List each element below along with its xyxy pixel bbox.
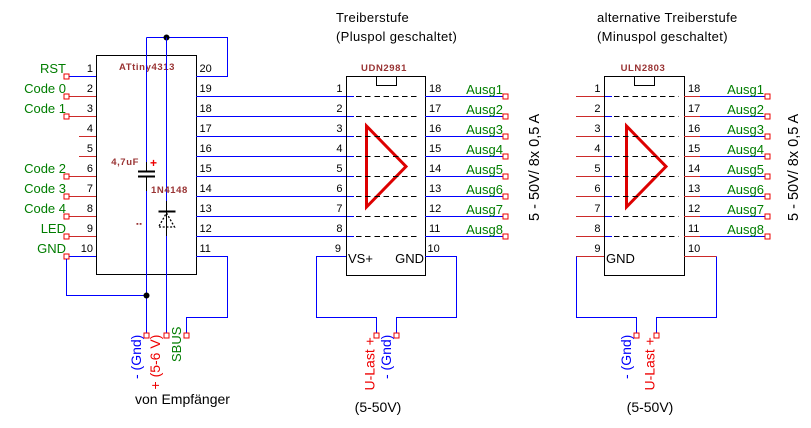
label von Empfaenger (135, 391, 230, 407)
pin 13 of U1 (200, 203, 212, 215)
wire U3 Ausg4 (700, 156, 765, 158)
node Code 0 label (24, 81, 66, 96)
node Ausg6 terminal (U3) (765, 194, 770, 199)
pin 15 of U3 (684, 143, 700, 157)
svg-text:3: 3 (594, 123, 600, 135)
pin 4 of U3 (576, 143, 612, 157)
svg-text:Ausg1: Ausg1 (727, 82, 764, 97)
svg-text:18: 18 (429, 83, 441, 95)
svg-text:2: 2 (594, 103, 600, 115)
U3 internal channel 2 dashed (614, 116, 679, 118)
pin 10 of U2 (428, 243, 440, 255)
U3 internal channel 7 dashed (614, 216, 679, 218)
svg-text:4: 4 (594, 143, 600, 155)
wire bus U1 pin 14 to U2 pin 6 (196, 196, 346, 198)
wire U3 pin9 to -(Gnd) (577, 257, 637, 334)
label GND (U2) (395, 251, 424, 266)
svg-text:LED: LED (41, 221, 66, 236)
wire U3 Ausg8 (700, 236, 765, 238)
U2 internal channel 6 dashed (356, 196, 420, 198)
pin 18 of U2 (429, 83, 441, 95)
pin 8 of U2 (336, 223, 354, 237)
pin 6 of U3 (576, 183, 612, 197)
svg-text:- (Gnd): - (Gnd) (618, 335, 634, 379)
pin 1 of U3 (576, 83, 612, 97)
svg-text:10: 10 (428, 243, 440, 255)
wire U2 pin10 to -(Gnd) (397, 257, 457, 334)
label C1 plus polarity (150, 156, 157, 170)
node Code 1 label (24, 101, 66, 116)
label dots (137, 223, 142, 225)
svg-text:Ausg2: Ausg2 (727, 102, 764, 117)
svg-text:(5-50V): (5-50V) (355, 399, 402, 415)
node Code 4 label (24, 201, 66, 216)
label SBUS (169, 326, 184, 362)
svg-text:14: 14 (200, 183, 212, 195)
label 1N4148 (151, 185, 188, 196)
wire diode branch lower (blue) (166, 236, 168, 333)
svg-text:14: 14 (429, 163, 441, 175)
wire U3 Ausg3 (700, 136, 765, 138)
svg-text:Ausg5: Ausg5 (466, 162, 503, 177)
op-amp U2 driver triangle (367, 126, 407, 207)
pin 11 of U1 (200, 243, 211, 255)
node Ausg3 terminal (U3) (765, 134, 770, 139)
label U-Last + (U2) (362, 337, 378, 390)
label Ausg8 (466, 222, 503, 237)
svg-text:8: 8 (87, 203, 93, 215)
svg-text:(5-50V): (5-50V) (627, 399, 674, 415)
svg-text:9: 9 (335, 243, 341, 255)
label Ausg2 (466, 102, 503, 117)
wire U2 pin 14 to Ausg5 (425, 176, 503, 178)
svg-text:11: 11 (200, 243, 211, 255)
pin 12 of U1 (200, 223, 212, 235)
pin 11 of U2 (429, 223, 440, 235)
label Ausg5 (U3) (727, 162, 764, 177)
svg-text:alternative Treiberstufe: alternative Treiberstufe (597, 10, 738, 25)
svg-text:13: 13 (688, 183, 700, 195)
pin 3 of U3 (576, 123, 612, 137)
label + (5-6 V) (147, 335, 163, 390)
wire U3 Ausg5 (700, 176, 765, 178)
pin 6 of U2 (336, 183, 354, 197)
svg-text:13: 13 (200, 203, 212, 215)
svg-text:Code 1: Code 1 (24, 101, 66, 116)
U2 internal channel 5 dashed (356, 176, 420, 178)
svg-text:6: 6 (336, 183, 342, 195)
title (Pluspol geschaltet) (336, 29, 457, 44)
svg-text:13: 13 (429, 183, 441, 195)
svg-text:Ausg8: Ausg8 (727, 222, 764, 237)
node Ausg4 terminal (503, 154, 508, 159)
node RST label (40, 61, 66, 76)
svg-text:16: 16 (429, 123, 441, 135)
wire U2 pin 13 to Ausg6 (425, 196, 503, 198)
pin 3 of U2 (336, 123, 354, 137)
node Ausg4 terminal (U3) (765, 154, 770, 159)
svg-text:4: 4 (87, 123, 93, 135)
node Ausg8 terminal (U3) (765, 234, 770, 239)
wire bus U1 pin 13 to U2 pin 7 (196, 216, 346, 218)
pin 3 of U1 (64, 103, 96, 119)
U3 notch (635, 77, 655, 86)
wire U3 Ausg1 (700, 96, 765, 98)
label VS+ (348, 251, 373, 266)
wire pin11 SBUS route (187, 257, 228, 334)
pin 2 of U2 (336, 103, 354, 117)
svg-text:17: 17 (200, 123, 212, 135)
svg-text:17: 17 (429, 103, 441, 115)
pin 13 of U2 (429, 183, 441, 195)
svg-text:7: 7 (336, 203, 342, 215)
wire capacitor branch lower (blue) (146, 191, 148, 333)
pin 15 of U1 (200, 163, 212, 175)
node + (5-6 V) terminal (164, 333, 169, 338)
svg-text:von Empfänger: von Empfänger (135, 391, 230, 407)
pin 14 of U1 (200, 183, 212, 195)
pin 1 of U2 (336, 83, 354, 97)
svg-text:2: 2 (87, 83, 93, 95)
label U-Last + (U3) (642, 337, 658, 390)
wire bus U1 pin 12 to U2 pin 8 (196, 236, 346, 238)
pin 10 of U1 (64, 243, 96, 259)
node U-Last + terminal (U3) (654, 333, 659, 338)
svg-text:5: 5 (87, 143, 93, 155)
svg-text:2: 2 (336, 103, 342, 115)
label Ausg3 (466, 122, 503, 137)
svg-text:U-Last +: U-Last + (642, 337, 658, 390)
U3 internal channel 4 dashed (614, 156, 679, 158)
U3 internal channel 8 dashed (614, 236, 679, 238)
pin 7 of U3 (576, 203, 612, 217)
svg-text:4: 4 (336, 143, 342, 155)
label - (Gnd) (128, 335, 144, 379)
U2 internal channel 4 dashed (356, 156, 420, 158)
pin 5 of U1 (79, 143, 96, 157)
U2 internal channel 3 dashed (356, 136, 420, 138)
pin 14 of U2 (429, 163, 441, 175)
U2 notch (377, 77, 397, 86)
svg-text:7: 7 (87, 183, 93, 195)
U2 internal channel 2 dashed (356, 116, 420, 118)
svg-text:Ausg8: Ausg8 (466, 222, 503, 237)
svg-text:5: 5 (594, 163, 600, 175)
pin 10 of U3 (684, 243, 717, 257)
wire pin20 to top rail (196, 37, 228, 77)
pin 9 of U2 (335, 243, 341, 255)
title (Minuspol geschaltet) (597, 29, 728, 44)
label ATtiny4313 (119, 62, 175, 73)
pin 6 of U1 (64, 163, 96, 179)
svg-text:Ausg4: Ausg4 (466, 142, 503, 157)
svg-text:Ausg7: Ausg7 (466, 202, 503, 217)
label Ausg1 (U3) (727, 82, 764, 97)
svg-text:5: 5 (336, 163, 342, 175)
U3 internal channel 1 dashed (614, 96, 679, 98)
pin 7 of U1 (64, 183, 96, 199)
svg-text:16: 16 (200, 143, 212, 155)
label UDN2981 (361, 63, 407, 74)
label Ausg7 (466, 202, 503, 217)
title alternative Treiberstufe (597, 10, 738, 25)
pin 17 of U2 (429, 103, 441, 115)
op-amp U3 driver triangle (627, 126, 667, 207)
svg-text:8: 8 (336, 223, 342, 235)
svg-text:5 - 50V/ 8x 0,5 A: 5 - 50V/ 8x 0,5 A (527, 113, 543, 221)
pin 7 of U2 (336, 203, 354, 217)
node Ausg1 terminal (503, 94, 508, 99)
pin 8 of U3 (576, 223, 612, 237)
wire U2 pin9 to U-Last+ (317, 257, 377, 334)
svg-text:10: 10 (81, 243, 93, 255)
svg-text:5 - 50V/ 8x 0,5 A: 5 - 50V/ 8x 0,5 A (786, 113, 802, 221)
label 4,7uF (111, 157, 139, 168)
node Ausg5 terminal (U3) (765, 174, 770, 179)
capacitor C1 4,7uF (138, 162, 155, 191)
svg-text:ULN2803: ULN2803 (621, 63, 666, 74)
svg-text:1: 1 (336, 83, 342, 95)
wire GND pin10 down (67, 259, 147, 296)
label 5 - 50V/ 8x 0,5 A middle (527, 113, 543, 221)
svg-text:Code 2: Code 2 (24, 161, 66, 176)
svg-text:U-Last +: U-Last + (362, 337, 378, 390)
svg-text:GND: GND (37, 241, 66, 256)
U2 internal channel 8 dashed (356, 236, 420, 238)
svg-text:18: 18 (200, 103, 212, 115)
pin 9 of U3 (576, 243, 604, 257)
node Ausg2 terminal (503, 114, 508, 119)
pin 18 of U3 (684, 83, 700, 97)
pin 2 of U1 (64, 83, 96, 99)
wire bus U1 pin 18 to U2 pin 2 (196, 116, 346, 118)
node SBUS terminal (184, 333, 189, 338)
label GND (U3) (606, 251, 635, 266)
svg-text:Code 4: Code 4 (24, 201, 66, 216)
svg-text:Code 3: Code 3 (24, 181, 66, 196)
node Ausg7 terminal (503, 214, 508, 219)
pin 17 of U3 (684, 103, 700, 117)
svg-text:6: 6 (87, 163, 93, 175)
wire U3 Ausg6 (700, 196, 765, 198)
wire U2 pin 15 to Ausg4 (425, 156, 503, 158)
svg-text:12: 12 (688, 203, 700, 215)
svg-text:12: 12 (200, 223, 212, 235)
svg-text:15: 15 (200, 163, 212, 175)
title Treiberstufe (336, 10, 409, 25)
wire bus U1 pin 15 to U2 pin 5 (196, 176, 346, 178)
label Ausg3 (U3) (727, 122, 764, 137)
pin 13 of U3 (684, 183, 700, 197)
label Ausg5 (466, 162, 503, 177)
svg-text:Ausg2: Ausg2 (466, 102, 503, 117)
svg-text:(Pluspol geschaltet): (Pluspol geschaltet) (336, 29, 457, 44)
IC U1 ATtiny4313 body (97, 56, 197, 275)
svg-text:9: 9 (594, 243, 600, 255)
pin 4 of U1 (79, 123, 96, 137)
svg-text:Ausg4: Ausg4 (727, 142, 764, 157)
junction GND / capacitor branch (144, 293, 150, 299)
label Ausg7 (U3) (727, 202, 764, 217)
label 5 - 50V/ 8x 0,5 A right (786, 113, 802, 221)
wire bus U1 pin 19 to U2 pin 1 (196, 96, 346, 98)
U2 internal channel 1 dashed (356, 96, 420, 98)
node GND label (37, 241, 66, 256)
pin 5 of U3 (576, 163, 612, 177)
node Ausg6 terminal (503, 194, 508, 199)
svg-text:8: 8 (594, 223, 600, 235)
svg-text:- (Gnd): - (Gnd) (378, 335, 394, 379)
svg-text:17: 17 (688, 103, 700, 115)
wire U2 pin 16 to Ausg3 (425, 136, 503, 138)
node - (Gnd) terminal (144, 333, 149, 338)
U2 internal channel 7 dashed (356, 216, 420, 218)
U3 internal channel 3 dashed (614, 136, 679, 138)
pin 1 of U1 (64, 63, 96, 79)
label Ausg6 (U3) (727, 182, 764, 197)
svg-text:RST: RST (40, 61, 66, 76)
node Ausg8 terminal (503, 234, 508, 239)
svg-text:Ausg6: Ausg6 (466, 182, 503, 197)
pin 9 of U1 (64, 223, 96, 239)
wire diode branch upper (blue) (166, 38, 168, 202)
svg-text:19: 19 (200, 83, 212, 95)
svg-text:Ausg3: Ausg3 (466, 122, 503, 137)
wire U3 Ausg7 (700, 216, 765, 218)
svg-text:+ (5-6 V): + (5-6 V) (147, 335, 163, 390)
svg-text:1N4148: 1N4148 (151, 185, 188, 196)
label - (Gnd) (U3) (618, 335, 634, 379)
label (5-50V) right (627, 399, 674, 415)
label Ausg8 (U3) (727, 222, 764, 237)
svg-text:3: 3 (336, 123, 342, 135)
pin 20 of U1 (200, 63, 212, 75)
label Ausg2 (U3) (727, 102, 764, 117)
node Ausg7 terminal (U3) (765, 214, 770, 219)
wire U2 pin 17 to Ausg2 (425, 116, 503, 118)
junction top rail / diode branch (164, 35, 170, 41)
svg-text:20: 20 (200, 63, 212, 75)
wire U2 pin 11 to Ausg8 (425, 236, 503, 238)
wire capacitor branch upper (blue) (146, 38, 148, 163)
node Code 3 label (24, 181, 66, 196)
pin 19 of U1 (200, 83, 212, 95)
node Ausg5 terminal (503, 174, 508, 179)
IC U2 UDN2981 body (347, 77, 426, 276)
svg-text:GND: GND (395, 251, 424, 266)
pin 11 of U3 (684, 223, 700, 237)
pin 18 of U1 (200, 103, 212, 115)
pin 2 of U3 (576, 103, 612, 117)
svg-text:11: 11 (429, 223, 440, 235)
pin 12 of U3 (684, 203, 700, 217)
node Ausg3 terminal (503, 134, 508, 139)
svg-text:14: 14 (688, 163, 700, 175)
node Ausg1 terminal (U3) (765, 94, 770, 99)
svg-text:1: 1 (87, 63, 93, 75)
wire U2 pin 12 to Ausg7 (425, 216, 503, 218)
svg-text:UDN2981: UDN2981 (361, 63, 407, 74)
svg-text:SBUS: SBUS (169, 326, 184, 362)
svg-text:16: 16 (688, 123, 700, 135)
IC U3 ULN2803 body (605, 77, 685, 276)
svg-text:(Minuspol geschaltet): (Minuspol geschaltet) (597, 29, 728, 44)
svg-text:+: + (150, 156, 157, 170)
svg-text:Ausg7: Ausg7 (727, 202, 764, 217)
svg-text:6: 6 (594, 183, 600, 195)
svg-text:GND: GND (606, 251, 635, 266)
diode D1 1N4148 (159, 201, 176, 236)
pin 16 of U2 (429, 123, 441, 135)
svg-text:11: 11 (688, 223, 699, 235)
pin 15 of U2 (429, 143, 441, 155)
svg-text:Treiberstufe: Treiberstufe (336, 10, 409, 25)
svg-text:18: 18 (688, 83, 700, 95)
svg-text:Ausg3: Ausg3 (727, 122, 764, 137)
pin 5 of U2 (336, 163, 354, 177)
pin 14 of U3 (684, 163, 700, 177)
wire U3 pin10 to U-Last+ (657, 257, 717, 334)
label Ausg6 (466, 182, 503, 197)
svg-text:3: 3 (87, 103, 93, 115)
svg-text:9: 9 (87, 223, 93, 235)
svg-text:1: 1 (594, 83, 600, 95)
node Code 2 label (24, 161, 66, 176)
pin 4 of U2 (336, 143, 354, 157)
wire bus U1 pin 16 to U2 pin 4 (196, 156, 346, 158)
pin 8 of U1 (64, 203, 96, 219)
node LED label (41, 221, 66, 236)
wire U2 pin 18 to Ausg1 (425, 96, 503, 98)
label Ausg4 (466, 142, 503, 157)
U3 internal channel 6 dashed (614, 196, 679, 198)
svg-text:12: 12 (429, 203, 441, 215)
svg-text:VS+: VS+ (348, 251, 373, 266)
wire top supply rail (147, 37, 228, 39)
svg-text:Ausg5: Ausg5 (727, 162, 764, 177)
label Ausg4 (U3) (727, 142, 764, 157)
svg-text:Ausg6: Ausg6 (727, 182, 764, 197)
label Ausg1 (466, 82, 503, 97)
U3 internal channel 5 dashed (614, 176, 679, 178)
wire bus U1 pin 17 to U2 pin 3 (196, 136, 346, 138)
svg-text:10: 10 (688, 243, 700, 255)
pin 12 of U2 (429, 203, 441, 215)
svg-text:Code 0: Code 0 (24, 81, 66, 96)
label - (Gnd) (U2) (378, 335, 394, 379)
node - (Gnd) terminal (U2) (394, 333, 399, 338)
node Ausg2 terminal (U3) (765, 114, 770, 119)
svg-text:Ausg1: Ausg1 (466, 82, 503, 97)
label ULN2803 (621, 63, 666, 74)
svg-text:15: 15 (688, 143, 700, 155)
svg-text:4,7uF: 4,7uF (111, 157, 139, 168)
wire U3 Ausg2 (700, 116, 765, 118)
node U-Last + terminal (U2) (374, 333, 379, 338)
svg-text:15: 15 (429, 143, 441, 155)
pin 16 of U1 (200, 143, 212, 155)
pin 17 of U1 (200, 123, 212, 135)
node - (Gnd) terminal (U3) (634, 333, 639, 338)
label (5-50V) middle (355, 399, 402, 415)
pin 16 of U3 (684, 123, 700, 137)
svg-text:7: 7 (594, 203, 600, 215)
svg-text:- (Gnd): - (Gnd) (128, 335, 144, 379)
